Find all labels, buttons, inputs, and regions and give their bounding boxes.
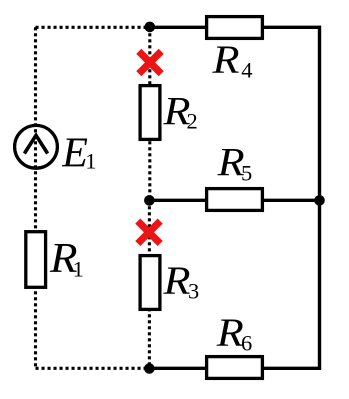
svg-text:R: R bbox=[216, 310, 244, 355]
svg-text:6: 6 bbox=[241, 330, 252, 355]
svg-text:1: 1 bbox=[85, 149, 96, 174]
node bottom junction bbox=[144, 363, 155, 374]
resistor R3 bbox=[140, 256, 199, 310]
svg-text:3: 3 bbox=[188, 278, 199, 303]
resistor R5 bbox=[207, 139, 263, 210]
svg-text:E: E bbox=[61, 131, 88, 177]
resistor R1 bbox=[26, 232, 84, 288]
node middle junction bbox=[144, 195, 155, 206]
svg-text:R: R bbox=[162, 258, 190, 303]
fault mark X on R3 branch bbox=[138, 221, 160, 243]
wire middle solid: node to R5 and R5 to right rail bbox=[149, 199, 206, 202]
svg-text:R: R bbox=[211, 37, 239, 82]
resistor R2 bbox=[140, 86, 198, 140]
wire left vertical dotted bbox=[34, 27, 37, 368]
svg-text:5: 5 bbox=[241, 161, 252, 186]
wire top-left dotted horizontal bbox=[36, 26, 150, 29]
resistor R6 bbox=[207, 310, 263, 378]
fault mark X on R2 branch bbox=[139, 51, 161, 73]
svg-text:2: 2 bbox=[187, 109, 198, 134]
source E1 bbox=[15, 125, 97, 176]
node right junction bbox=[314, 195, 325, 206]
wire bottom-left dotted horizontal bbox=[36, 367, 150, 370]
wire top solid: node to R4 and R4 to right rail bbox=[150, 26, 206, 29]
node top junction bbox=[145, 22, 156, 33]
wire middle branch dotted top node to middle node bbox=[148, 27, 151, 200]
wire bottom solid: node to R6 and R6 to right rail bbox=[149, 367, 206, 370]
svg-text:4: 4 bbox=[241, 57, 252, 82]
wire right vertical rail bbox=[318, 26, 321, 370]
resistor R4 bbox=[207, 17, 263, 83]
svg-text:1: 1 bbox=[73, 257, 84, 282]
wire middle branch dotted middle node to bottom node bbox=[148, 200, 151, 368]
